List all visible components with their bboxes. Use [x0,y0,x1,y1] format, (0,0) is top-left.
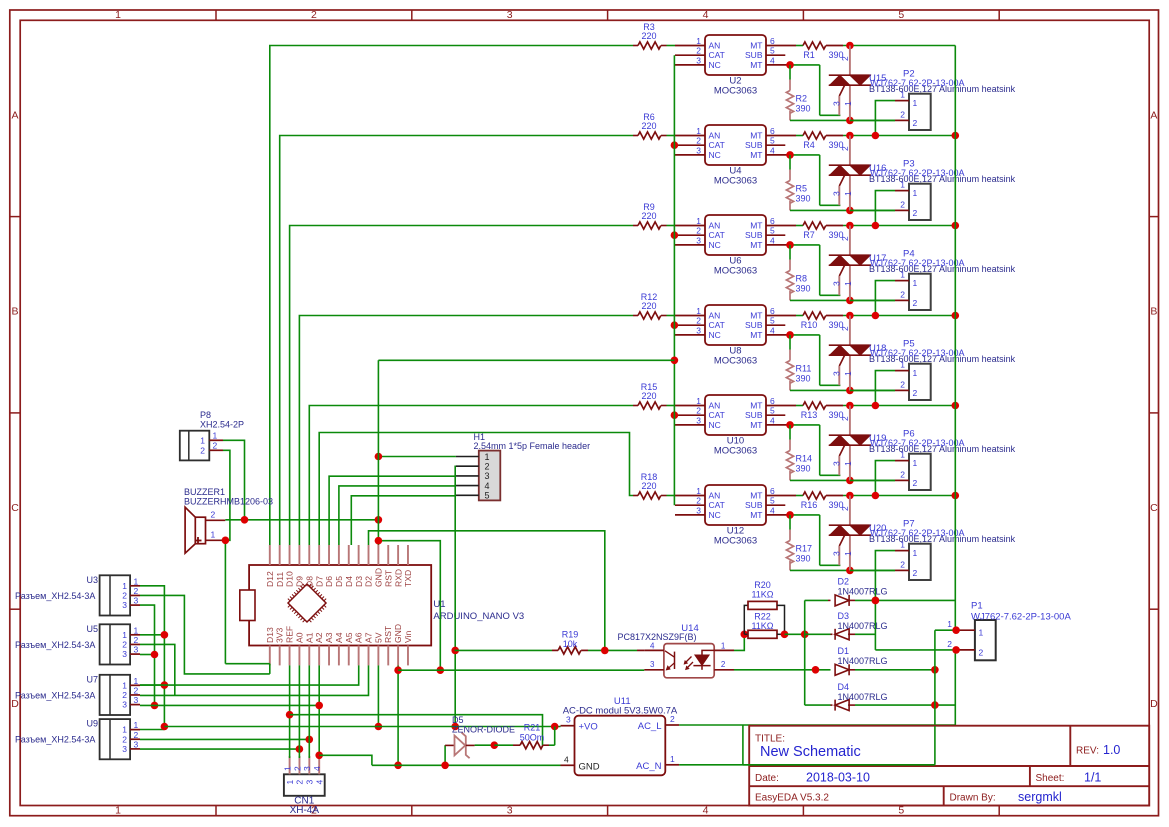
svg-text:D3: D3 [354,576,364,587]
junction [846,387,854,395]
svg-text:A4: A4 [334,632,344,643]
junction [241,516,383,524]
svg-text:4: 4 [312,766,322,771]
wire U7.1 to A6 L3 [140,665,359,685]
svg-text:4: 4 [485,481,490,491]
junction [222,537,230,545]
junction [671,411,679,419]
svg-text:D6: D6 [324,576,334,587]
svg-text:2: 2 [211,509,216,519]
svg-text:CAT: CAT [709,50,725,60]
svg-text:1: 1 [979,628,984,638]
wire [667,225,676,227]
svg-text:1: 1 [122,581,127,591]
svg-text:Vin: Vin [403,631,413,643]
svg-text:R16: R16 [801,500,818,510]
svg-text:1: 1 [122,630,127,640]
wire D-pin to R12 [299,316,633,546]
svg-text:NC: NC [709,150,721,160]
svg-text:R22: R22 [754,612,771,622]
junction [846,567,854,575]
svg-text:MOC3063: MOC3063 [714,176,757,187]
optocoupler U8 MOC3063 [675,305,796,367]
svg-text:4: 4 [703,9,709,21]
svg-text:Sheet:: Sheet: [1036,773,1065,784]
svg-text:AN: AN [709,131,721,141]
svg-text:4: 4 [770,55,775,65]
wire A2 to CN1.4 [318,665,320,758]
svg-text:R2: R2 [796,94,808,104]
wire bridge left rail [804,600,806,705]
svg-text:11KΩ: 11KΩ [751,590,773,600]
svg-text:GND: GND [393,624,403,643]
svg-text:ARDUINO_NANO V3: ARDUINO_NANO V3 [433,611,524,622]
wire [843,495,955,497]
wire [790,425,840,475]
svg-text:2: 2 [134,685,139,695]
svg-text:C: C [11,502,19,514]
svg-text:A0: A0 [294,632,304,643]
wire [850,119,895,121]
svg-text:R10: R10 [801,320,818,330]
svg-text:220: 220 [641,301,656,311]
junction [872,597,880,605]
svg-text:390: 390 [796,464,811,474]
wire [843,225,955,227]
resistor R21 50Om [494,723,554,749]
wire [444,745,446,765]
wire bridge right rail [934,630,936,765]
svg-text:3: 3 [832,101,842,106]
svg-text:AN: AN [709,41,721,51]
svg-text:2: 2 [721,660,726,669]
svg-text:D12: D12 [265,571,275,587]
junction [846,402,854,410]
wire H1.1 [378,456,456,458]
svg-text:MOC3063: MOC3063 [714,86,757,97]
svg-text:R14: R14 [796,454,813,464]
svg-text:2: 2 [295,780,305,785]
svg-text:D5: D5 [452,715,464,725]
svg-text:D3: D3 [838,611,850,621]
wire [875,461,895,496]
svg-text:4: 4 [314,780,324,785]
svg-text:1: 1 [900,540,905,550]
svg-text:3: 3 [507,805,513,817]
triac U18 BT138-600E [829,316,1016,391]
microcontroller U1 ARDUINO_NANO V3 [240,545,524,665]
connector CN1 XH-4A [282,756,324,816]
junction [786,61,794,69]
svg-text:1: 1 [122,725,127,735]
junction [846,492,854,500]
svg-text:2: 2 [696,496,701,506]
svg-text:TXD: TXD [403,570,413,587]
svg-text:Разъем_XH2.54-3A: Разъем_XH2.54-3A [15,640,95,650]
svg-text:1: 1 [122,680,127,690]
wire [790,209,895,211]
wire U5.2 to U7.2 [140,644,175,695]
svg-text:NC: NC [709,330,721,340]
svg-text:3: 3 [122,744,127,754]
resistor R13 390 [801,402,844,420]
wire [140,729,164,731]
svg-text:1: 1 [913,368,918,378]
wire [667,495,676,497]
svg-text:1: 1 [721,642,726,651]
junction [786,241,794,249]
svg-text:1N4007RLG: 1N4007RLG [838,587,888,597]
wire [790,65,840,115]
svg-text:sergmkl: sergmkl [1018,790,1062,804]
junction [671,141,679,149]
junction [952,626,960,634]
svg-text:1: 1 [134,676,139,686]
svg-text:2: 2 [900,470,905,480]
zener diode D5 ZENOR-DIODE [445,715,515,758]
svg-text:B: B [1150,306,1157,318]
svg-text:1: 1 [696,396,701,406]
svg-text:5V: 5V [373,632,383,643]
svg-text:1N4007RLG: 1N4007RLG [838,621,888,631]
svg-text:MT: MT [750,330,762,340]
wire [796,135,803,137]
junction [315,702,323,759]
wire H1.4 to D5 [339,486,456,545]
svg-text:A6: A6 [354,632,364,643]
svg-text:D4: D4 [344,576,354,587]
svg-text:2: 2 [696,316,701,326]
svg-text:Разъем_XH2.54-3A: Разъем_XH2.54-3A [15,591,95,601]
svg-text:P1: P1 [971,601,983,612]
svg-text:1: 1 [843,191,853,196]
junction [931,701,939,709]
wire [225,664,269,674]
wire CN1.1 branch [290,715,543,746]
svg-text:2: 2 [913,298,918,308]
wire pin1 bus [140,586,164,727]
svg-text:2: 2 [840,326,850,331]
svg-text:1: 1 [913,548,918,558]
svg-text:U1: U1 [433,599,445,610]
wire [843,45,955,47]
wire [850,569,895,571]
resistor R4 390 [803,132,844,150]
svg-text:SUB: SUB [745,50,763,60]
svg-text:1/1: 1/1 [1084,771,1101,785]
svg-text:3: 3 [832,191,842,196]
svg-text:BUZZER1: BUZZER1 [184,487,225,497]
svg-text:MT: MT [750,311,762,321]
svg-text:SUB: SUB [745,230,763,240]
wire [875,371,895,406]
wire [790,299,895,301]
svg-text:11KΩ: 11KΩ [751,621,773,631]
junction [394,666,402,769]
wire over title [743,725,935,765]
svg-text:1: 1 [115,9,121,21]
svg-text:4: 4 [770,145,775,155]
triac U20 BT138-600E [829,496,1016,571]
svg-text:390: 390 [796,374,811,384]
wire [790,245,840,295]
svg-text:1N4007RLG: 1N4007RLG [838,692,888,702]
svg-text:D5: D5 [334,576,344,587]
connector P1 WJ762-7.62-2P-13-00A [947,601,1071,661]
svg-text:5: 5 [770,316,775,326]
svg-text:R11: R11 [796,364,812,374]
svg-text:3: 3 [832,551,842,556]
junction [872,597,880,605]
junction [872,312,959,320]
wire U7.3 line L5 [140,704,319,706]
junction [872,222,959,230]
svg-text:WJ762-7.62-2P-13-00A: WJ762-7.62-2P-13-00A [870,528,965,538]
wire [875,191,895,226]
connector P8 XH2.54-2P [180,410,244,460]
wire P8.2 to buzzer [223,450,230,540]
resistor R22 11K [744,612,784,639]
wire D-pin to R3 [270,46,633,546]
svg-text:3: 3 [650,660,655,669]
svg-text:2: 2 [900,380,905,390]
svg-text:3: 3 [122,700,127,710]
svg-text:3: 3 [485,471,490,481]
svg-text:U3: U3 [86,575,98,585]
wire [790,479,895,481]
junction [375,537,445,674]
wire A1 to CN1.3 [308,665,310,758]
wire CAT bus [673,55,675,505]
svg-text:MOC3063: MOC3063 [714,446,757,457]
junction [161,631,169,639]
junction [786,331,794,339]
svg-text:EasyEDA V5.3.2: EasyEDA V5.3.2 [755,793,829,804]
wire D-pin to R15 [309,406,633,546]
svg-text:MT: MT [750,240,762,250]
diode D3 1N4007RLG [805,611,888,640]
svg-text:1: 1 [900,270,905,280]
svg-text:5: 5 [770,226,775,236]
svg-text:220: 220 [641,481,656,491]
connector H1 2.54mm 1*5p female header [456,432,590,501]
wire [667,135,676,137]
junction [375,723,383,731]
svg-text:6: 6 [770,216,775,226]
svg-text:WJ762-7.62-2P-13-00A: WJ762-7.62-2P-13-00A [870,438,965,448]
svg-text:MT: MT [750,510,762,520]
svg-text:R20: R20 [754,580,771,590]
svg-text:CAT: CAT [709,230,725,240]
junction [451,647,459,731]
svg-text:WJ762-7.62-2P-13-00A: WJ762-7.62-2P-13-00A [870,348,965,358]
svg-text:220: 220 [641,211,656,221]
optocoupler U12 MOC3063 [675,485,796,547]
svg-text:B: B [11,306,18,318]
svg-text:1: 1 [134,720,139,730]
svg-text:AN: AN [709,221,721,231]
wire [850,479,895,481]
svg-text:U7: U7 [86,674,98,684]
wire H1.2 down [454,466,457,726]
svg-text:3: 3 [696,235,701,245]
resistor R20 11K [744,580,784,634]
connector P2 WJ762-7.62-2P-13.00A [870,69,965,131]
svg-text:AC_L: AC_L [638,721,662,732]
svg-text:1: 1 [913,278,918,288]
junction [151,702,159,710]
svg-text:3: 3 [134,645,139,655]
wire H1.5 to D4 [351,496,456,545]
junction [551,723,559,731]
wire 5V riser [377,665,379,726]
wire R21 riser [554,727,556,746]
triac U17 BT138-600E [829,226,1016,301]
svg-text:390: 390 [796,554,811,564]
wire buzzer.1 down [224,540,226,663]
svg-text:Разъем_XH2.54-3A: Разъем_XH2.54-3A [15,735,95,745]
junction [846,312,854,320]
junction [846,477,854,485]
svg-text:1: 1 [900,450,905,460]
svg-text:1: 1 [900,360,905,370]
optocoupler U10 MOC3063 [675,395,796,457]
svg-text:D4: D4 [838,682,850,692]
svg-text:D2: D2 [364,576,374,587]
junction [872,132,959,140]
svg-text:5: 5 [770,496,775,506]
wire D-pin to R9 [290,226,633,546]
junction [801,631,809,639]
svg-text:3: 3 [134,739,139,749]
wire AC_N [679,764,935,766]
svg-text:SUB: SUB [745,140,763,150]
svg-text:2: 2 [913,568,918,578]
svg-text:MT: MT [750,131,762,141]
svg-text:1: 1 [900,180,905,190]
svg-text:A: A [1150,109,1157,121]
svg-text:1: 1 [696,216,701,226]
svg-text:1: 1 [696,306,701,316]
wire [850,389,895,391]
svg-text:4: 4 [564,754,569,764]
wire GND line [372,764,561,766]
svg-text:3: 3 [696,145,701,155]
svg-text:1: 1 [200,435,205,445]
wire [667,45,676,47]
wire A2 branch [319,755,372,765]
svg-text:CAT: CAT [709,500,725,510]
svg-text:2: 2 [900,290,905,300]
svg-text:D10: D10 [285,571,295,587]
wire [796,45,803,47]
svg-text:AN: AN [709,401,721,411]
svg-text:CAT: CAT [709,140,725,150]
svg-text:MOC3063: MOC3063 [714,266,757,277]
wire [140,684,164,686]
svg-text:2: 2 [913,118,918,128]
svg-text:1.0: 1.0 [1103,743,1120,757]
resistor R2 390 [786,65,810,121]
svg-text:2: 2 [696,406,701,416]
svg-text:D2: D2 [838,577,850,587]
wire [843,135,955,137]
svg-text:6: 6 [770,396,775,406]
svg-text:P8: P8 [200,410,211,420]
wire [875,551,895,650]
wire U7.2 to A7... L4 [140,665,369,695]
wire MT bus [954,46,956,726]
svg-text:MT: MT [750,491,762,501]
wire CAT to GND branch [378,359,674,361]
svg-text:2: 2 [122,590,127,600]
svg-text:New Schematic: New Schematic [760,744,861,760]
wire [790,155,840,205]
svg-text:MT: MT [750,420,762,430]
svg-text:2: 2 [485,462,490,472]
svg-text:R7: R7 [803,230,815,240]
junction [375,453,383,461]
diode D4 1N4007RLG [805,682,956,711]
svg-text:D: D [1150,698,1158,710]
wire L2 to U14.3 [398,669,644,671]
svg-text:A3: A3 [324,632,334,643]
svg-text:2: 2 [840,56,850,61]
junction [846,297,854,305]
svg-text:3: 3 [134,695,139,705]
optocoupler U4 MOC3063 [675,125,796,187]
svg-text:R19: R19 [562,630,579,640]
resistor R19 10k [455,630,605,655]
junction [786,421,794,429]
svg-text:RXD: RXD [393,569,403,587]
svg-text:4: 4 [770,325,775,335]
wire [667,315,676,317]
svg-text:390: 390 [796,194,811,204]
svg-text:D7: D7 [314,576,324,587]
svg-text:U5: U5 [86,624,98,634]
svg-text:3: 3 [302,766,312,771]
wire [790,335,840,385]
svg-text:CAT: CAT [709,320,725,330]
svg-text:3: 3 [305,780,315,785]
resistor R3 220 [633,22,667,49]
svg-text:1: 1 [900,90,905,100]
wire [796,225,803,227]
connector U9 XH2.54-3A [15,719,140,760]
svg-text:1: 1 [843,551,853,556]
svg-text:2: 2 [900,110,905,120]
junction [441,762,449,770]
diode D2 1N4007RLG [805,577,956,606]
wire A0 to CN1.2 [298,665,300,758]
svg-text:Разъем_XH2.54-3A: Разъем_XH2.54-3A [15,690,95,700]
wire [790,119,895,121]
junction [872,492,959,500]
svg-text:2: 2 [122,734,127,744]
svg-text:1: 1 [670,754,675,764]
junction [151,651,159,659]
svg-text:A2: A2 [314,632,324,643]
junction [671,231,679,239]
svg-text:A7: A7 [364,632,374,643]
svg-text:1: 1 [696,486,701,496]
svg-text:2: 2 [311,9,317,21]
resistor R1 390 [803,42,844,60]
svg-text:4: 4 [770,415,775,425]
connector U3 XH2.54-3A [15,575,140,616]
svg-text:1: 1 [134,576,139,586]
